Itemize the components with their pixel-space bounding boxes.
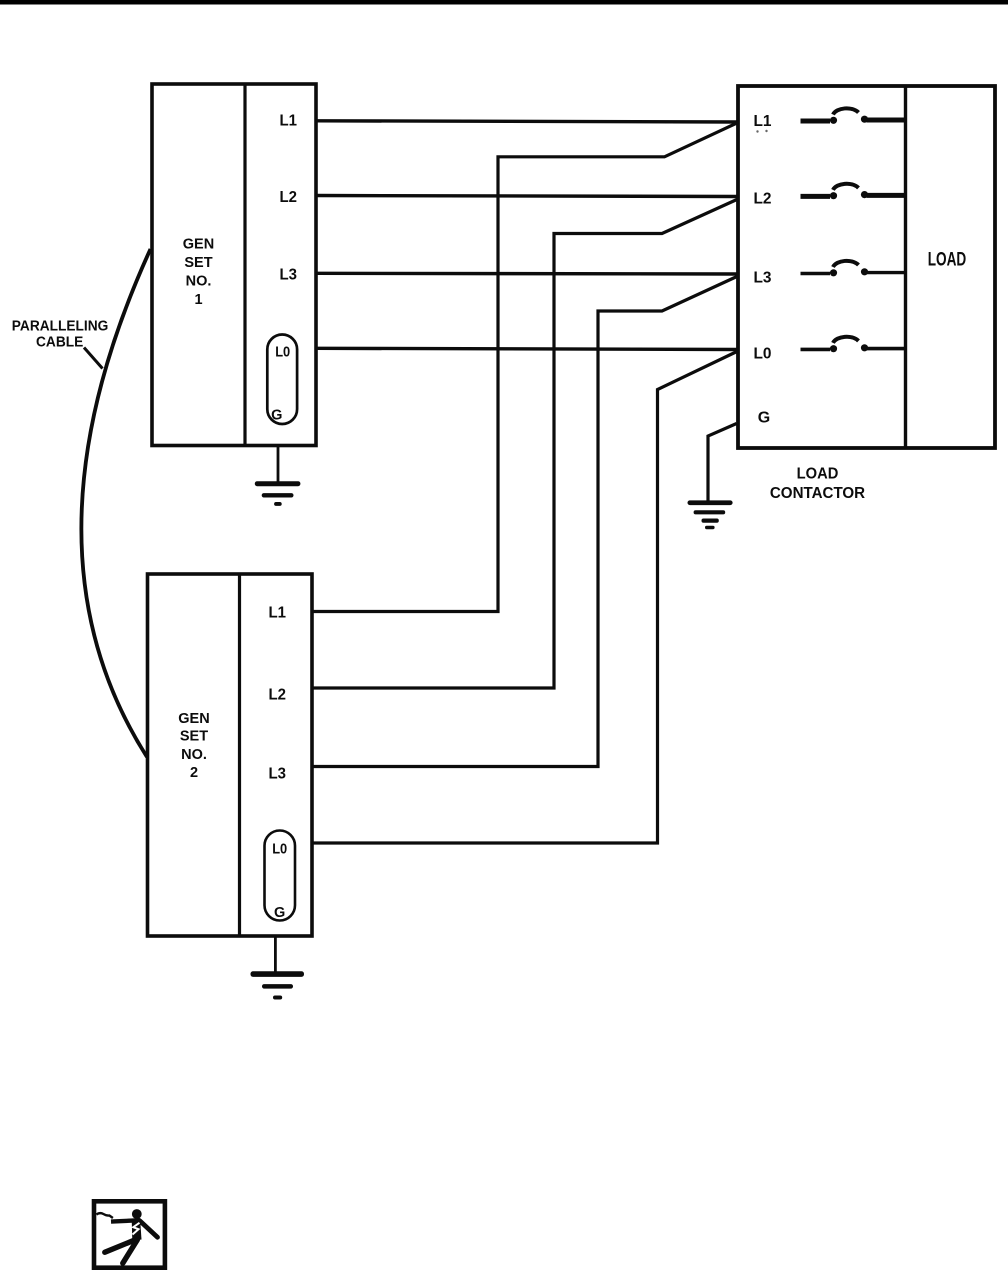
svg-text:2: 2 xyxy=(190,765,198,781)
svg-text:L1: L1 xyxy=(269,605,287,622)
svg-text:L2: L2 xyxy=(754,191,772,208)
svg-text:CABLE: CABLE xyxy=(36,335,84,351)
svg-text:L1: L1 xyxy=(280,112,298,129)
svg-text:L3: L3 xyxy=(754,270,772,287)
svg-text:L0: L0 xyxy=(275,344,290,360)
svg-text:GEN: GEN xyxy=(183,236,214,252)
svg-text:LOAD: LOAD xyxy=(928,250,967,271)
svg-text:L0: L0 xyxy=(754,346,772,363)
svg-text:L2: L2 xyxy=(280,189,298,206)
svg-text:PARALLELING: PARALLELING xyxy=(12,318,109,334)
svg-text:NO.: NO. xyxy=(186,274,212,290)
svg-text:G: G xyxy=(274,905,285,921)
svg-text:LOAD: LOAD xyxy=(797,466,839,483)
svg-text:L1: L1 xyxy=(754,113,772,130)
svg-text:G: G xyxy=(758,410,770,427)
svg-text:G: G xyxy=(271,407,282,423)
svg-text:L2: L2 xyxy=(269,687,287,704)
svg-text:SET: SET xyxy=(180,729,208,745)
svg-text:SET: SET xyxy=(184,255,212,271)
svg-text:1: 1 xyxy=(194,292,202,308)
svg-text:L3: L3 xyxy=(269,766,287,783)
svg-text:NO.: NO. xyxy=(181,747,207,763)
svg-text:L0: L0 xyxy=(272,841,287,857)
svg-text:GEN: GEN xyxy=(178,711,209,727)
svg-text:L3: L3 xyxy=(280,266,298,283)
svg-text:CONTACTOR: CONTACTOR xyxy=(770,485,865,502)
